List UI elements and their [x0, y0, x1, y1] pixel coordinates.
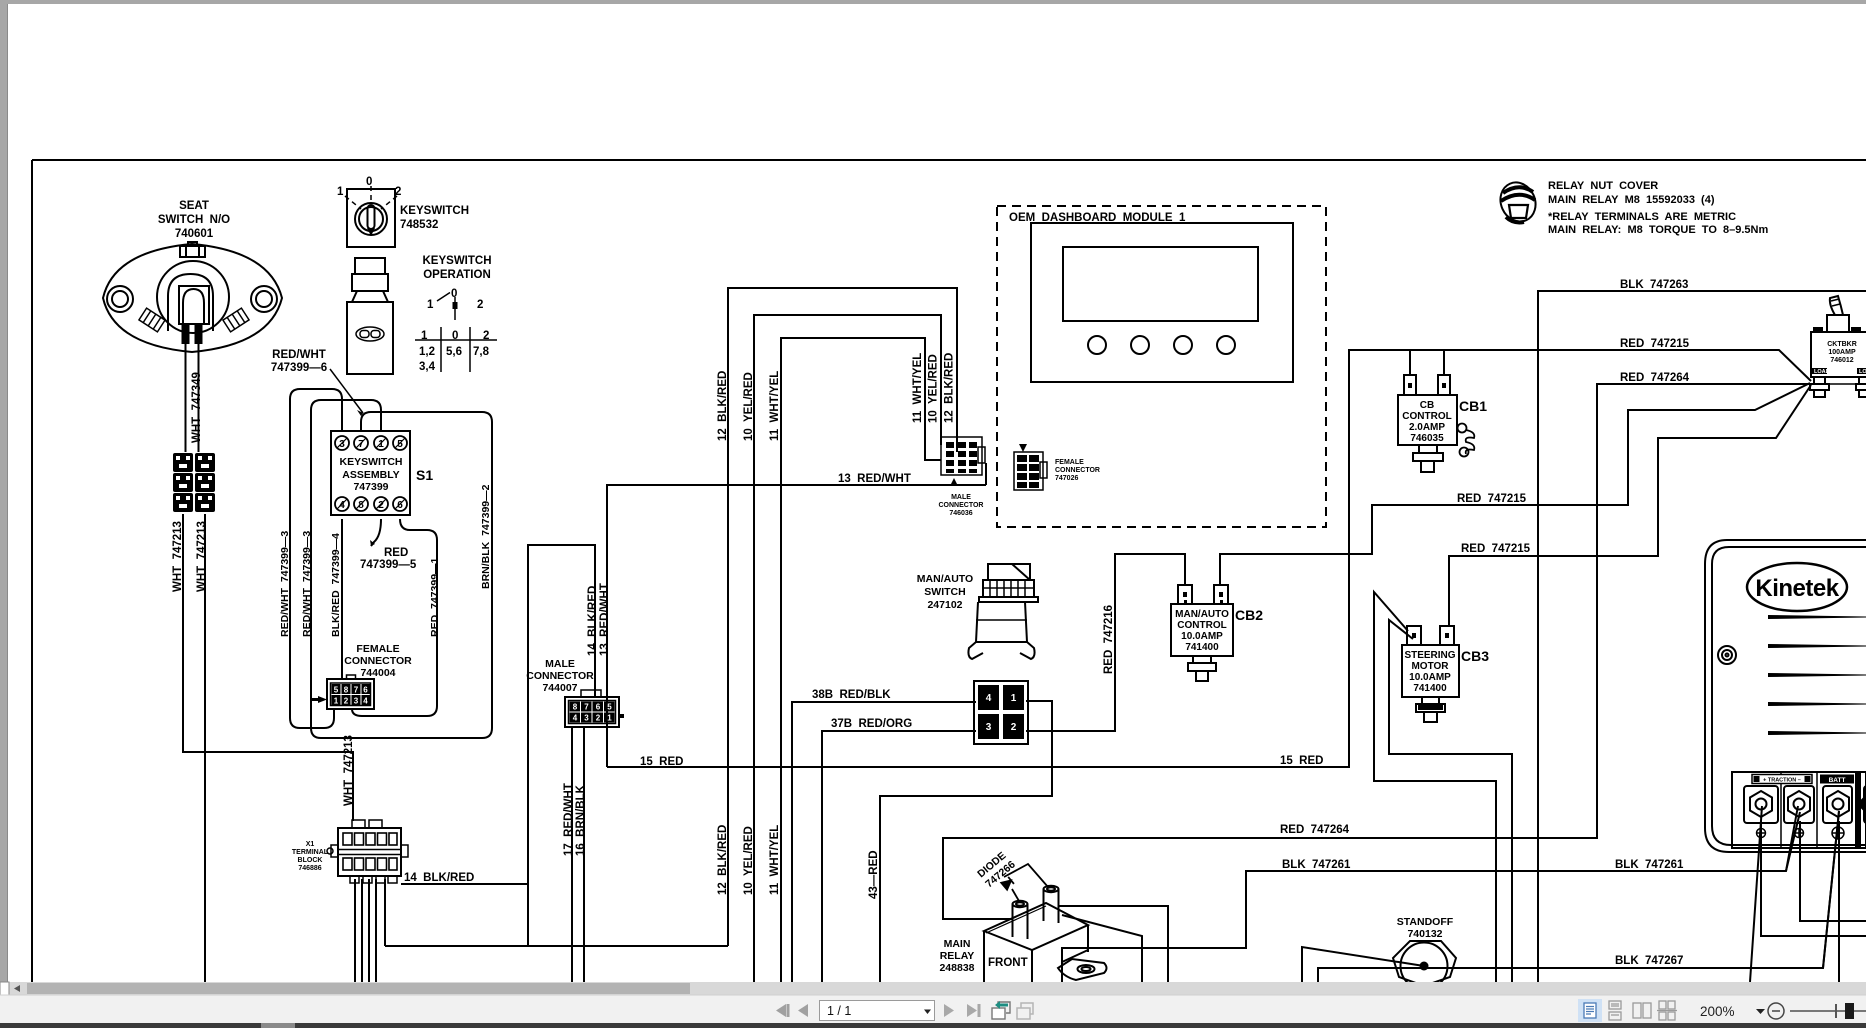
label female connector 744004	[344, 643, 412, 679]
CB3 circuit breaker	[1402, 626, 1459, 722]
svg-text:SWITCH: SWITCH	[924, 586, 965, 598]
svg-text:2.0AMP: 2.0AMP	[1409, 422, 1445, 433]
svg-text:5: 5	[607, 703, 612, 712]
svg-text:6: 6	[397, 500, 403, 511]
svg-text:RED/WHT: RED/WHT	[272, 349, 326, 361]
svg-text:5,6: 5,6	[446, 346, 462, 358]
wire standoff leader	[1302, 947, 1424, 982]
svg-text:12 BLK/RED: 12 BLK/RED	[717, 371, 729, 441]
svg-text:STEERING: STEERING	[1404, 650, 1455, 661]
label standoff	[1397, 916, 1454, 940]
svg-text:LOAD: LOAD	[1814, 369, 1830, 375]
svg-text:KEYSWITCH: KEYSWITCH	[400, 205, 469, 217]
svg-text:2: 2	[483, 330, 489, 342]
svg-text:37B RED/ORG: 37B RED/ORG	[831, 718, 912, 730]
svg-text:100AMP: 100AMP	[1828, 349, 1856, 356]
svg-text:MALE: MALE	[545, 658, 575, 670]
svg-text:747399—6: 747399—6	[271, 362, 327, 374]
wire 12 BLK/RED loop	[728, 288, 957, 946]
male connector 744007	[565, 690, 619, 727]
svg-text:15 RED: 15 RED	[1280, 755, 1323, 767]
frame top border	[32, 159, 1866, 161]
X1 terminal block 746886	[327, 820, 408, 883]
wire keyswitch pin2 stub RED 747399-5	[371, 519, 381, 546]
seat switch pin terminals	[183, 324, 202, 343]
svg-text:STANDOFF: STANDOFF	[1397, 916, 1454, 928]
toolbar first page button	[776, 1004, 790, 1017]
toolbar zoom out	[1768, 1003, 1784, 1019]
toolbar next view icon (disabled)	[1017, 1003, 1033, 1019]
svg-text:2: 2	[378, 500, 384, 511]
kinetek terminal screws	[1757, 827, 1845, 839]
svg-text:14 BLK/RED: 14 BLK/RED	[404, 872, 474, 884]
wire keyswitch loop pin3 to connector	[290, 389, 342, 728]
wire WHT 747213 left	[183, 514, 353, 821]
svg-text:CB2: CB2	[1235, 607, 1263, 623]
svg-text:2: 2	[395, 186, 401, 198]
wire kinetek terminal T2 leads	[1786, 806, 1866, 921]
seat switch left ear	[107, 286, 133, 312]
svg-text:740601: 740601	[175, 228, 214, 240]
svg-text:4: 4	[573, 714, 578, 723]
kinetek terminal hex nuts	[1750, 791, 1849, 817]
svg-text:747399—5: 747399—5	[360, 559, 417, 571]
label CB3	[1404, 650, 1455, 694]
svg-text:747399: 747399	[353, 481, 388, 493]
toolbar prev view icon	[992, 1002, 1010, 1019]
keyswitch assembly S1 box	[331, 431, 410, 515]
wire RED 747215 to CB2	[1220, 383, 1810, 585]
svg-text:12 BLK/RED: 12 BLK/RED	[944, 353, 956, 423]
label X1 terminal block	[292, 841, 329, 872]
svg-text:4: 4	[363, 697, 368, 706]
svg-text:2: 2	[477, 299, 483, 311]
viewer left scrollbar strip	[0, 0, 8, 982]
svg-text:3: 3	[354, 697, 359, 706]
svg-text:13 RED/WHT: 13 RED/WHT	[838, 473, 911, 485]
svg-text:LOAD: LOAD	[1859, 369, 1866, 375]
svg-text:10 YEL/RED: 10 YEL/RED	[928, 354, 940, 423]
svg-text:CONNECTOR: CONNECTOR	[939, 502, 984, 509]
leader RED 747399-5 arrowhead	[370, 540, 375, 546]
svg-text:3: 3	[339, 439, 345, 450]
svg-text:CKTBKR: CKTBKR	[1827, 341, 1857, 348]
svg-text:FEMALE: FEMALE	[356, 643, 399, 655]
svg-text:+ TRACTION –: + TRACTION –	[1763, 778, 1801, 784]
toolbar page dropdown arrow	[924, 1010, 931, 1015]
kinetek 4th terminal divider and partial cell	[1855, 773, 1861, 847]
standoff 740132	[1393, 941, 1456, 990]
svg-text:5: 5	[334, 686, 339, 695]
svg-text:Kinetek: Kinetek	[1755, 575, 1839, 602]
wire RED 747215 / 15 RED net	[607, 350, 1811, 767]
wire CB1 terminal stubs	[1410, 350, 1444, 374]
svg-text:2: 2	[596, 714, 601, 723]
svg-text:CB1: CB1	[1459, 398, 1487, 414]
svg-text:43—RED: 43—RED	[868, 850, 880, 899]
svg-text:CONNECTOR: CONNECTOR	[1055, 467, 1100, 474]
wire RED 747264 to main relay	[943, 384, 1810, 919]
svg-text:SEAT: SEAT	[179, 200, 209, 212]
svg-text:KEYSWITCH: KEYSWITCH	[423, 255, 492, 267]
seat switch center ring	[157, 261, 229, 333]
svg-text:CONTROL: CONTROL	[1177, 620, 1226, 631]
CKT BKR 746012	[1810, 296, 1866, 397]
svg-text:10.0AMP: 10.0AMP	[1409, 672, 1451, 683]
svg-text:BLK 747261: BLK 747261	[1615, 859, 1684, 871]
seat switch right ear	[251, 286, 277, 312]
svg-text:200%: 200%	[1700, 1004, 1735, 1019]
svg-text:CONNECTOR: CONNECTOR	[344, 655, 412, 667]
svg-text:WHT 747213: WHT 747213	[196, 521, 208, 592]
toolbar zoom slider	[1790, 1010, 1866, 1012]
svg-text:1: 1	[337, 186, 344, 198]
svg-text:8: 8	[573, 703, 578, 712]
svg-text:SWITCH N/O: SWITCH N/O	[158, 214, 230, 226]
seat switch bracket	[179, 286, 209, 324]
wire main relay to motor a	[1062, 915, 1142, 982]
svg-text:RED/WHT 747399—3: RED/WHT 747399—3	[279, 531, 291, 637]
label male connector 744007	[526, 658, 594, 694]
svg-text:TERMINAL: TERMINAL	[292, 849, 329, 856]
CB1 circuit breaker	[1398, 375, 1457, 472]
keyswitch assembly bottom pins 4,8,2,6	[335, 497, 407, 511]
seat switch hatch pad left	[139, 308, 165, 332]
leader RED/WHT 747399-6	[330, 369, 363, 413]
svg-text:RELAY: RELAY	[940, 950, 975, 962]
svg-text:10 YEL/RED: 10 YEL/RED	[743, 372, 755, 441]
svg-text:FRONT: FRONT	[988, 957, 1028, 969]
svg-text:3: 3	[584, 714, 589, 723]
kinetek vents	[1768, 615, 1866, 735]
toolbar last page button	[967, 1004, 981, 1017]
toolbar prev page button	[798, 1004, 808, 1017]
svg-text:RED 747264: RED 747264	[1620, 372, 1690, 384]
keyswitch operation table	[415, 327, 497, 372]
wire 11 WHT/YEL loop	[781, 338, 941, 982]
diode 747266 symbol	[1001, 877, 1014, 890]
svg-text:RED 747216: RED 747216	[1103, 605, 1115, 674]
wire RED 747215 to CB3	[1449, 385, 1811, 626]
svg-text:1: 1	[334, 697, 339, 706]
wire BLK 747263	[1538, 291, 1866, 982]
wire X1 block leads	[355, 879, 385, 982]
label keyswitch assembly	[340, 456, 403, 493]
label seat switch	[158, 200, 230, 240]
label keyswitch operation	[423, 255, 492, 281]
svg-text:MAIN RELAY M8 15592033 (4): MAIN RELAY M8 15592033 (4)	[1548, 194, 1715, 206]
wire BLK 747261	[1062, 812, 1800, 982]
svg-text:746035: 746035	[1410, 433, 1444, 444]
svg-text:RED: RED	[384, 547, 408, 559]
toolbar continuous page icon	[1609, 1001, 1621, 1020]
svg-text:11 WHT/YEL: 11 WHT/YEL	[769, 371, 781, 441]
seat switch connector block	[173, 453, 215, 512]
svg-text:10.0AMP: 10.0AMP	[1181, 631, 1223, 642]
svg-text:MAIN RELAY: M8 TORQUE TO: MAIN RELAY: M8 TORQUE TO 8–9.5Nm	[1548, 224, 1768, 236]
viewer horizontal scrollbar	[8, 982, 1866, 995]
svg-text:WHT 747213: WHT 747213	[172, 521, 184, 592]
svg-text:746036: 746036	[949, 510, 972, 517]
svg-text:BATT: BATT	[1829, 777, 1846, 784]
svg-text:8: 8	[358, 500, 364, 511]
svg-text:FEMALE: FEMALE	[1055, 459, 1084, 466]
viewer toolbar	[0, 995, 1866, 1023]
svg-text:1 / 1: 1 / 1	[827, 1004, 851, 1018]
svg-text:OEM DASHBOARD MODULE 1: OEM DASHBOARD MODULE 1	[1009, 212, 1186, 224]
keyswitch 748532 front view	[347, 189, 395, 247]
svg-text:BLK 747263: BLK 747263	[1620, 279, 1688, 291]
label RED/WHT 747399-6	[271, 349, 327, 374]
svg-text:2: 2	[344, 697, 349, 706]
wire 16 BRN/BLK	[583, 727, 585, 982]
svg-text:RED 747264: RED 747264	[1280, 824, 1350, 836]
keyswitch 748532 side view	[347, 258, 393, 374]
frame left border	[31, 160, 33, 982]
svg-text:247102: 247102	[927, 599, 962, 611]
toolbar continuous facing icon	[1657, 1001, 1677, 1020]
svg-text:14 BLK/RED: 14 BLK/RED	[587, 586, 599, 656]
wire CB3 left terminal to steering motor b	[1389, 620, 1512, 982]
wire keyswitch pin4 to connector	[341, 519, 343, 680]
male connector 746036	[941, 437, 985, 475]
svg-text:11 WHT/YEL: 11 WHT/YEL	[912, 353, 924, 423]
svg-text:WHT 747213: WHT 747213	[343, 735, 355, 806]
svg-text:X1: X1	[306, 841, 315, 848]
CB2 circuit breaker	[1171, 585, 1233, 681]
seat switch plug dome	[183, 289, 204, 324]
keyswitch operation key glyph	[453, 302, 458, 309]
svg-text:MAIN: MAIN	[944, 938, 971, 950]
wire seat switch leads WHT 747349	[186, 331, 199, 452]
svg-text:6: 6	[596, 703, 601, 712]
label pin numbers bottom	[339, 500, 403, 511]
kinetek TRACTION label bar	[1752, 775, 1812, 784]
svg-text:4: 4	[339, 500, 345, 511]
wire keyswitch loop pin1 to pin7	[311, 400, 492, 738]
wire BLK 747267	[1318, 811, 1839, 982]
viewer top gray bar	[0, 0, 1866, 4]
OEM dashboard module 1 dashed box	[997, 206, 1326, 527]
main relay 248838 isometric	[984, 886, 1107, 982]
svg-text:RED 747399—1: RED 747399—1	[429, 557, 441, 637]
svg-text:1: 1	[1011, 693, 1017, 704]
svg-text:1,2: 1,2	[419, 346, 435, 358]
svg-text:1: 1	[607, 714, 612, 723]
wire kinetek terminal T3 leads	[1823, 811, 1839, 982]
svg-text:740132: 740132	[1407, 928, 1442, 940]
svg-text:3: 3	[986, 722, 992, 733]
wire 14 BLK/RED	[401, 545, 595, 945]
svg-text:8: 8	[344, 686, 349, 695]
svg-text:ASSEMBLY: ASSEMBLY	[342, 469, 399, 481]
svg-text:744004: 744004	[360, 667, 395, 679]
svg-text:KEYSWITCH: KEYSWITCH	[340, 456, 403, 468]
svg-text:RELAY NUT COVER: RELAY NUT COVER	[1548, 180, 1658, 192]
label relay nut cover	[1548, 180, 1768, 236]
svg-text:12 BLK/RED: 12 BLK/RED	[717, 825, 729, 895]
OEM dashboard LCD	[1063, 247, 1258, 321]
svg-text:BLK/RED 747399—4: BLK/RED 747399—4	[330, 533, 342, 637]
svg-text:4: 4	[986, 693, 992, 704]
kinetek BATT label bar	[1820, 775, 1854, 784]
label CB2	[1175, 609, 1229, 653]
svg-text:747026: 747026	[1055, 475, 1078, 482]
scrollbar thumb	[27, 983, 690, 994]
svg-text:CB3: CB3	[1461, 648, 1489, 664]
relay nut cover icon	[1494, 177, 1541, 227]
seat switch top bolt	[180, 242, 205, 257]
toolbar zoom dropdown	[1756, 1009, 1765, 1014]
svg-text:MAN/AUTO: MAN/AUTO	[917, 573, 973, 585]
rotated wire labels	[172, 353, 1115, 899]
svg-text:11 WHT/YEL: 11 WHT/YEL	[769, 825, 781, 895]
viewer bottom dark bar	[0, 1023, 1866, 1028]
wire 37B RED/ORG	[822, 731, 976, 982]
keyswitch assembly top pins 3,7,1,5	[335, 436, 407, 450]
svg-text:RED/WHT 747399—3: RED/WHT 747399—3	[301, 531, 313, 637]
svg-text:744007: 744007	[542, 682, 577, 694]
toolbar facing pages icon	[1633, 1003, 1651, 1018]
label LOAD LOAD	[1814, 369, 1866, 375]
kinetek logo ellipse	[1747, 563, 1847, 611]
svg-text:0: 0	[451, 288, 457, 300]
svg-text:13 RED/WHT: 13 RED/WHT	[599, 583, 611, 656]
toolbar page box	[820, 1001, 935, 1021]
wire 17 RED/WHT	[571, 727, 573, 982]
svg-text:38B RED/BLK: 38B RED/BLK	[812, 689, 891, 701]
svg-text:16 BRN/BLK: 16 BRN/BLK	[575, 784, 587, 856]
svg-text:CONNECTOR: CONNECTOR	[526, 670, 594, 682]
svg-text:7: 7	[354, 686, 359, 695]
label ckt bkr	[1827, 341, 1857, 364]
wire 43-RED	[880, 701, 1052, 982]
wire 38B RED/BLK	[792, 702, 976, 982]
wire keyswitch pin6 to connector	[352, 519, 437, 716]
wire main relay to motor b	[1058, 906, 1168, 982]
svg-text:0: 0	[366, 176, 372, 188]
svg-text:741400: 741400	[1413, 683, 1447, 694]
svg-text:741400: 741400	[1185, 642, 1219, 653]
svg-text:BLK 747267: BLK 747267	[1615, 955, 1683, 967]
wire kinetek terminal T1 leads	[1750, 806, 1866, 982]
svg-text:MOTOR: MOTOR	[1411, 661, 1449, 672]
kinetek screw	[1718, 646, 1736, 664]
svg-text:746012: 746012	[1830, 357, 1853, 364]
svg-text:BLK 747261: BLK 747261	[1282, 859, 1351, 871]
svg-text:6: 6	[363, 686, 368, 695]
svg-text:BLOCK: BLOCK	[298, 857, 323, 864]
man/auto switch 247102 drawing	[968, 564, 1038, 659]
toolbar single page icon (active)	[1578, 999, 1602, 1022]
wire 10 YEL/RED loop	[754, 315, 941, 982]
svg-text:15 RED: 15 RED	[640, 756, 683, 768]
svg-text:BRN/BLK 747399—2: BRN/BLK 747399—2	[480, 484, 492, 589]
wire WHT 747213 right	[204, 514, 206, 982]
svg-text:1: 1	[427, 299, 434, 311]
svg-text:248838: 248838	[939, 962, 974, 974]
svg-text:S1: S1	[416, 467, 433, 483]
svg-text:7,8: 7,8	[473, 346, 490, 358]
seat switch bell	[168, 274, 213, 331]
CB1 trip coil	[1458, 424, 1475, 457]
svg-text:OPERATION: OPERATION	[423, 269, 491, 281]
svg-text:*RELAY TERMINALS ARE METRIC: *RELAY TERMINALS ARE METRIC	[1548, 211, 1736, 223]
svg-text:0: 0	[452, 330, 458, 342]
svg-text:CB: CB	[1420, 400, 1434, 411]
wire RED 747216 CB2 to man/auto switch	[1026, 554, 1185, 731]
svg-text:MALE: MALE	[951, 494, 971, 501]
svg-text:CONTROL: CONTROL	[1402, 411, 1451, 422]
wire 13 RED/WHT	[607, 485, 986, 767]
OEM dashboard module body	[1031, 223, 1293, 382]
kinetek controller outline	[1705, 540, 1866, 852]
svg-text:MAN/AUTO: MAN/AUTO	[1175, 609, 1229, 620]
svg-text:5: 5	[397, 439, 403, 450]
seat switch SW 740601 flange	[103, 242, 282, 352]
svg-text:10 YEL/RED: 10 YEL/RED	[743, 826, 755, 895]
scrollbar corner box	[0, 982, 9, 995]
kinetek terminal assembly	[1732, 772, 1866, 848]
svg-text:748532: 748532	[400, 219, 438, 231]
svg-text:1: 1	[378, 439, 384, 450]
label man/auto switch	[917, 573, 973, 611]
wire bottom bus to X1	[385, 945, 728, 947]
female connector 747026	[1014, 452, 1047, 490]
svg-text:RED 747215: RED 747215	[1457, 493, 1527, 505]
label female connector 747026	[1055, 459, 1100, 482]
svg-text:17 RED/WHT: 17 RED/WHT	[563, 783, 575, 856]
svg-text:7: 7	[358, 439, 364, 450]
label pin numbers top	[339, 439, 403, 450]
wire stub to male connector 746036	[985, 463, 987, 485]
label main relay	[939, 938, 974, 974]
svg-text:746886: 746886	[298, 865, 321, 872]
svg-text:3,4: 3,4	[419, 361, 436, 373]
svg-text:7: 7	[584, 703, 589, 712]
female connector 744004	[327, 675, 374, 709]
seat switch hatch pad right	[223, 308, 249, 332]
svg-text:2: 2	[1011, 722, 1017, 733]
label male connector 746036	[939, 494, 984, 517]
svg-text:WHT 747349: WHT 747349	[191, 372, 203, 443]
svg-text:1: 1	[421, 330, 428, 342]
toolbar next page button	[944, 1004, 954, 1017]
label CB1	[1402, 400, 1451, 444]
man/auto contact block	[974, 681, 1028, 744]
scrollbar left arrow	[14, 985, 20, 992]
svg-text:RED 747215: RED 747215	[1461, 543, 1531, 555]
OEM dashboard buttons	[1088, 336, 1235, 354]
wire CB3 left terminal to steering motor a	[1374, 592, 1496, 982]
svg-text:RED 747215: RED 747215	[1620, 338, 1690, 350]
